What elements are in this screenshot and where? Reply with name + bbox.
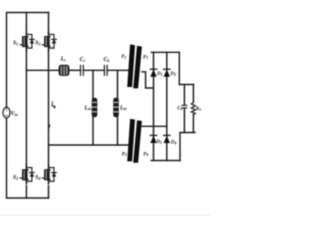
MOSFET S2 — [20, 165, 34, 183]
wire: output bottom bar + riser to rectifier — [180, 133, 195, 161]
svg-text:Ro: Ro — [196, 106, 201, 112]
transformer T1 windings P1 P3 — [127, 44, 142, 88]
inductor Lm1 — [92, 98, 98, 117]
svg-text:Cr: Cr — [80, 57, 86, 63]
transformer T2 windings P2 P4 — [127, 119, 142, 163]
svg-text:Cb: Cb — [104, 57, 110, 63]
wire: branch 2 vertical — [117, 70, 119, 145]
wire: rectifier leg 1 — [153, 52, 155, 160]
wire: output capacitor branch — [183, 85, 185, 106]
capacitor Co — [182, 104, 187, 106]
svg-text:P1: P1 — [121, 54, 126, 60]
MOSFET S3 — [42, 32, 56, 50]
wire: resonant tank bottom rail — [49, 144, 129, 146]
wire: left rail lower + bottom rail — [7, 118, 49, 198]
capacitor Cb — [103, 65, 105, 75]
capacitor Cr — [80, 65, 82, 75]
wire: resonant tank top rail — [26, 69, 58, 71]
wire: output link from top bar — [179, 52, 193, 84]
svg-text:P3: P3 — [143, 54, 148, 60]
wire: T2 secondary to rectifier — [142, 125, 166, 127]
wire: rectifier bottom bar — [151, 160, 180, 162]
wire: branch 1 vertical — [92, 70, 94, 145]
svg-text:P4: P4 — [143, 151, 148, 157]
svg-text:Lr: Lr — [60, 57, 67, 63]
svg-text:D3: D3 — [155, 139, 162, 145]
current arrow ir at node b — [51, 102, 53, 107]
svg-text:S1: S1 — [13, 41, 18, 47]
svg-text:Vin: Vin — [11, 111, 19, 117]
inductor Lr — [59, 65, 70, 76]
wire: right bridge leg (node b) — [48, 13, 50, 33]
diode D1 — [150, 69, 156, 77]
MOSFET S1 — [20, 32, 34, 50]
wire: rectifier leg 2 — [166, 52, 168, 160]
svg-text:S3: S3 — [35, 41, 40, 47]
wire: left rail upper + top rail — [7, 13, 49, 108]
wire: rectifier top bar — [151, 51, 179, 53]
wire: output resistor branch — [192, 85, 194, 103]
svg-text:D4: D4 — [170, 140, 177, 146]
wire: T1 secondary to rectifier — [142, 72, 154, 88]
svg-text:Lm: Lm — [83, 105, 91, 111]
svg-text:S4: S4 — [35, 175, 40, 181]
diode D4 — [164, 135, 170, 143]
current arrow on right leg — [48, 124, 50, 128]
svg-text:S2: S2 — [13, 175, 18, 181]
svg-text:P2: P2 — [122, 151, 127, 157]
svg-text:D2: D2 — [169, 71, 176, 77]
diode D3 — [150, 135, 156, 143]
svg-text:Lm: Lm — [119, 105, 127, 111]
svg-text:D1: D1 — [156, 71, 163, 77]
wire: left bridge leg (node a) — [25, 13, 27, 33]
faint separator line at bottom — [0, 215, 210, 216]
voltage source Vin — [3, 107, 10, 117]
MOSFET S4 — [42, 165, 56, 183]
svg-text:Co: Co — [177, 105, 182, 111]
inductor Lm2 — [113, 98, 119, 117]
resistor Ro — [191, 102, 195, 114]
diode D2 — [164, 69, 170, 77]
